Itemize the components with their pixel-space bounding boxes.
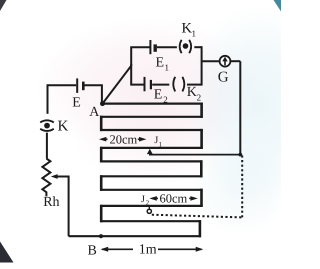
svg-text:A: A	[89, 105, 100, 120]
svg-text:J: J	[141, 194, 145, 205]
svg-text:2: 2	[146, 199, 150, 207]
svg-text:E: E	[72, 96, 81, 111]
svg-text:1m: 1m	[139, 243, 157, 258]
svg-text:1: 1	[159, 140, 163, 148]
svg-text:2: 2	[197, 93, 202, 103]
svg-text:20cm: 20cm	[110, 133, 138, 147]
svg-text:G: G	[218, 69, 229, 85]
svg-text:K: K	[58, 119, 69, 135]
svg-text:1: 1	[165, 63, 170, 73]
svg-text:E: E	[154, 87, 163, 102]
svg-text:K: K	[187, 85, 197, 100]
svg-text:B: B	[88, 243, 97, 258]
svg-text:1: 1	[192, 29, 197, 39]
svg-text:60cm: 60cm	[160, 192, 188, 206]
svg-text:Rh: Rh	[43, 195, 59, 210]
svg-text:2: 2	[163, 95, 168, 105]
svg-text:E: E	[156, 55, 165, 70]
